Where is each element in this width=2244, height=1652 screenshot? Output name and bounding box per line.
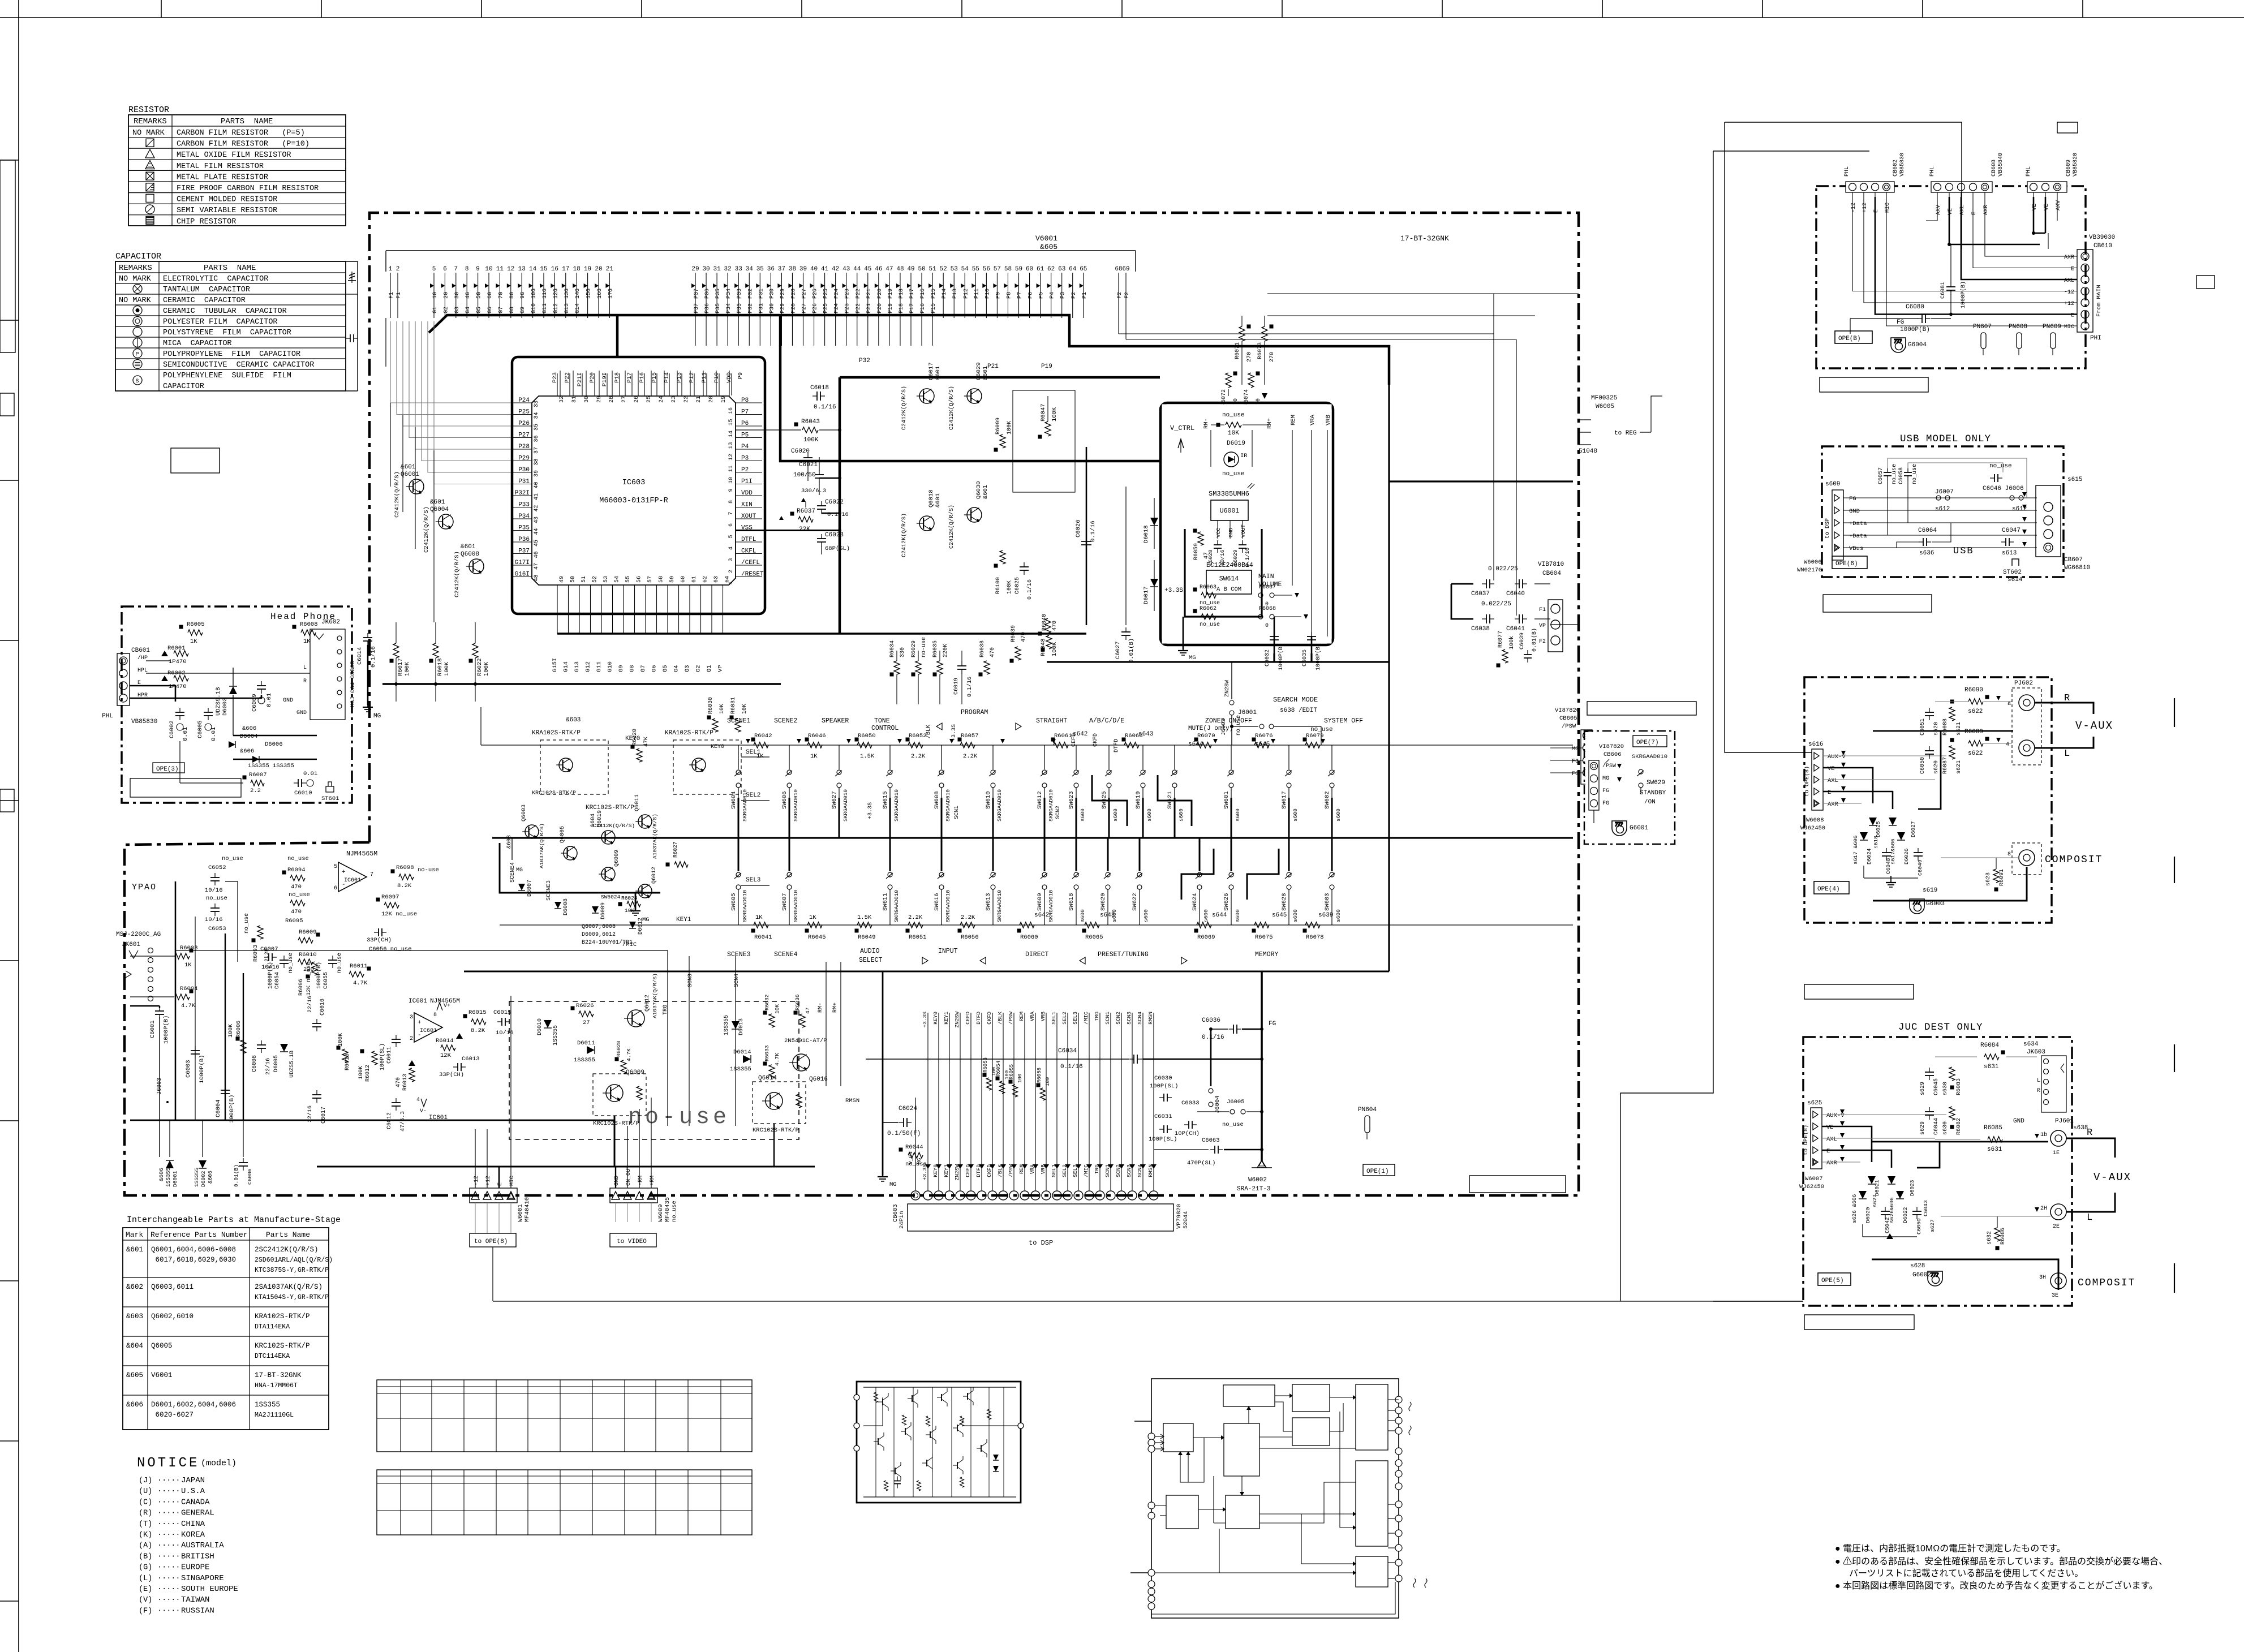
R6006 100K [236, 1037, 240, 1041]
terminal ST601 [326, 782, 334, 792]
JUC RCA jack R [2050, 1130, 2066, 1146]
svg-text:16G: 16G [597, 289, 603, 299]
svg-text:2.2K: 2.2K [911, 753, 926, 760]
svg-text:SCENE4: SCENE4 [510, 862, 516, 883]
transistor Q6004 2SC2412K [439, 514, 453, 529]
svg-text:32: 32 [559, 396, 565, 403]
svg-text:3G: 3G [454, 292, 461, 299]
svg-text:REMARKS: REMARKS [134, 117, 167, 126]
svg-text:XIN: XIN [741, 502, 753, 509]
svg-text:s600: s600 [1335, 909, 1342, 922]
svg-text:/PSW: /PSW [1008, 1012, 1014, 1025]
legend CAPACITOR electrolytic symbol right [351, 272, 352, 283]
svg-text:AUSTRALIA: AUSTRALIA [181, 1541, 224, 1550]
svg-text:F2: F2 [1539, 639, 1546, 645]
svg-text:G6: G6 [487, 307, 493, 313]
svg-text:P10: P10 [713, 372, 720, 383]
svg-text:44: 44 [853, 266, 861, 273]
svg-text:TANTALUM CAPACITOR: TANTALUM CAPACITOR [163, 286, 250, 294]
svg-text:no_use: no_use [206, 895, 227, 902]
diode D6012 [629, 922, 636, 928]
block diagram box I right tall2 [1356, 1461, 1388, 1546]
svg-text:&602: &602 [126, 1283, 143, 1291]
svg-text:6: 6 [728, 523, 734, 527]
svg-text:Q6030: Q6030 [975, 481, 982, 499]
USB input connector W6006 [1832, 490, 1843, 560]
J6004 jumper riser [1210, 1029, 1212, 1086]
svg-text:1K: 1K [303, 638, 311, 645]
svg-text:AXR: AXR [1828, 801, 1839, 808]
svg-text:OPE(3): OPE(3) [156, 766, 179, 773]
svg-text:no_use: no_use [1222, 471, 1245, 477]
transistor Q6018 &601 [919, 516, 934, 531]
svg-text:1000P(B): 1000P(B) [1960, 281, 1967, 308]
svg-text:0.1/16: 0.1/16 [1060, 1064, 1083, 1070]
svg-text:10/16: 10/16 [261, 964, 280, 971]
svg-text:s631: s631 [1984, 1064, 1999, 1070]
thick horizontal upper bus [1389, 480, 1573, 482]
svg-text:G6003: G6003 [1926, 901, 1945, 907]
svg-text:s619: s619 [1923, 887, 1937, 894]
thick VE bus OPE(B) [1949, 244, 2040, 246]
legend RESISTOR symbol cement molded [146, 194, 154, 202]
resistor R6043 100K [794, 423, 798, 427]
svg-text:62: 62 [1047, 266, 1055, 273]
svg-text:0.1/16: 0.1/16 [966, 677, 973, 697]
svg-text:P31: P31 [758, 289, 764, 299]
svg-text:G16I: G16I [515, 571, 530, 578]
OPE(3) label box [153, 763, 184, 773]
svg-text:MF00325: MF00325 [1591, 395, 1617, 402]
svg-text:CEFD: CEFD [965, 1012, 971, 1025]
svg-text:s639: s639 [1318, 912, 1333, 919]
switch SW613 [992, 838, 994, 871]
resistor R6071 270 [1247, 325, 1251, 329]
svg-text:A1037AK(Q/R/S): A1037AK(Q/R/S) [652, 814, 658, 859]
svg-text:100K: 100K [1007, 421, 1013, 434]
svg-text:VB39030: VB39030 [2089, 234, 2115, 241]
left edge narrow box [0, 160, 15, 352]
svg-text:24: 24 [659, 396, 665, 403]
svg-text:Q6004: Q6004 [430, 506, 449, 513]
svg-text:CERAMIC TUBULAR CAPACITOR: CERAMIC TUBULAR CAPACITOR [163, 307, 287, 316]
svg-text:36: 36 [767, 266, 775, 273]
svg-text:Q6001,6004,6006-6008: Q6001,6004,6006-6008 [151, 1246, 236, 1254]
svg-text:R6022: R6022 [476, 658, 483, 676]
svg-text:5: 5 [334, 864, 337, 870]
svg-text:C6050: C6050 [1920, 757, 1926, 774]
svg-text:3: 3 [410, 1014, 413, 1021]
svg-text:OPE(B): OPE(B) [1838, 335, 1861, 342]
svg-text:1SS355: 1SS355 [194, 1167, 200, 1187]
svg-text:17-BT-32GNK: 17-BT-32GNK [1400, 234, 1449, 243]
svg-text:43: 43 [842, 266, 850, 273]
svg-text:C6064: C6064 [1918, 527, 1937, 534]
svg-text:1000P(B): 1000P(B) [1315, 643, 1322, 670]
svg-text:R6038: R6038 [979, 640, 986, 657]
svg-text:SCENE3: SCENE3 [727, 951, 751, 958]
svg-text:C2412K(Q/R/S): C2412K(Q/R/S) [901, 386, 908, 430]
legend CAPACITOR film symbol right [346, 338, 350, 339]
svg-text:SCN4: SCN4 [734, 974, 740, 987]
svg-text:P23: P23 [552, 372, 558, 383]
svg-text:s617&606: s617&606 [1890, 838, 1896, 864]
svg-text:CEMENT MOLDED RESISTOR: CEMENT MOLDED RESISTOR [177, 196, 277, 204]
svg-text:G10: G10 [531, 303, 538, 313]
svg-text:R6094: R6094 [287, 867, 306, 874]
IC603 right pins [736, 402, 762, 403]
svg-text:D6002: D6002 [200, 1171, 207, 1187]
svg-text:VRA: VRA [1029, 1012, 1035, 1021]
resistor R6076 [1252, 738, 1256, 742]
svg-text:/MIC: /MIC [1083, 1012, 1089, 1025]
svg-text:PJ602: PJ602 [2014, 680, 2033, 687]
svg-text:+3.3S: +3.3S [1164, 587, 1183, 594]
svg-text:8: 8 [728, 500, 734, 504]
svg-text:69: 69 [1122, 266, 1129, 273]
svg-text:46: 46 [534, 551, 540, 558]
svg-text:UDZS5.1B: UDZS5.1B [289, 1051, 295, 1078]
thick audio path wires YPAO [175, 881, 177, 1120]
svg-text:DTFL: DTFL [741, 536, 756, 543]
svg-text:C6001: C6001 [149, 1020, 156, 1038]
svg-text:D6012: D6012 [638, 918, 644, 935]
svg-text:.....: ..... [157, 1573, 180, 1581]
empty annotation rect below USB [1823, 595, 1932, 612]
OPE(7) label box [1633, 735, 1667, 747]
svg-text:100K: 100K [228, 1024, 234, 1038]
C6004 1000P(B) [225, 1086, 226, 1090]
svg-text:+: + [342, 869, 346, 876]
svg-text:1G: 1G [432, 292, 439, 299]
C6028 10/16 [1217, 540, 1218, 545]
svg-text:2SC2412K(Q/R/S): 2SC2412K(Q/R/S) [255, 1246, 319, 1254]
block diagram box B [1292, 1384, 1330, 1412]
svg-text:KTC3875S-Y,GR-RTK/P: KTC3875S-Y,GR-RTK/P [255, 1267, 329, 1274]
svg-text:ST602: ST602 [2003, 569, 2022, 576]
svg-text:CERAMIC CAPACITOR: CERAMIC CAPACITOR [163, 296, 246, 305]
OPE(7) dash-dot sub box [1584, 731, 1675, 844]
ST602 s614 [2012, 559, 2019, 566]
svg-text:G6001: G6001 [1630, 825, 1648, 832]
svg-text:to OPE(8): to OPE(8) [1803, 1125, 1809, 1155]
R6009 resistor [316, 933, 320, 937]
svg-text:C6055: C6055 [323, 972, 329, 989]
svg-text:s600: s600 [1203, 909, 1209, 922]
svg-text:R6037: R6037 [797, 508, 815, 515]
svg-text:4: 4 [416, 1097, 420, 1103]
svg-text:P15: P15 [651, 372, 658, 383]
svg-text:0.022/25: 0.022/25 [1481, 601, 1511, 608]
svg-text:68: 68 [1115, 266, 1122, 273]
svg-text:GND: GND [614, 1176, 620, 1186]
thick FG vertical [1261, 971, 1263, 1161]
svg-text:D6022: D6022 [1902, 1207, 1908, 1223]
svg-text:R6088: R6088 [1942, 719, 1949, 735]
s616 signal wires [1823, 755, 1946, 756]
svg-text:&606: &606 [242, 725, 256, 732]
svg-text:FG: FG [1572, 759, 1579, 765]
svg-text:Q6009: Q6009 [626, 1069, 644, 1076]
svg-text:C6040: C6040 [1506, 591, 1525, 597]
svg-text:no_use: no_use [244, 913, 250, 933]
svg-text:.....: ..... [157, 1475, 180, 1483]
svg-text:P29: P29 [780, 303, 786, 313]
svg-text:TRG: TRG [1094, 1012, 1100, 1021]
svg-text:Q6012: Q6012 [644, 995, 651, 1012]
svg-text:s600: s600 [1292, 808, 1299, 821]
svg-text:&606: &606 [126, 1401, 143, 1409]
svg-text:0.022/25: 0.022/25 [1488, 566, 1518, 573]
svg-text:50: 50 [570, 576, 577, 583]
svg-text:C6049: C6049 [1917, 859, 1923, 876]
svg-text:D6027: D6027 [1910, 821, 1916, 837]
svg-text:+3.3S: +3.3S [922, 1012, 928, 1028]
svg-text:&601: &601 [430, 499, 445, 506]
svg-text:13G: 13G [564, 289, 570, 299]
svg-text:CB610: CB610 [2093, 243, 2112, 249]
remote sensor block thick frame [1160, 403, 1333, 645]
svg-text:1SS355: 1SS355 [574, 1057, 595, 1064]
svg-text:C6033: C6033 [1181, 1100, 1200, 1107]
svg-text:P13: P13 [676, 372, 683, 383]
svg-text:CAPACITOR: CAPACITOR [163, 382, 204, 391]
jumper R6068 0 [1258, 614, 1263, 619]
svg-text:G8: G8 [509, 307, 515, 313]
long wire OPE8 top route A [1725, 122, 1962, 249]
R6013 470 [409, 1060, 415, 1066]
svg-text:MIC: MIC [509, 1176, 515, 1186]
upper no_use loop wires [1888, 458, 2027, 498]
R6053 R6054 R6055 R6058 100 resistors [983, 1073, 987, 1077]
svg-text:11: 11 [496, 266, 504, 273]
svg-text:R6012: R6012 [365, 1065, 371, 1082]
legend CAPACITOR symbol sulfide [133, 376, 142, 385]
left edge small mark 1 [0, 393, 14, 416]
rail dots [394, 682, 398, 686]
svg-text:P26: P26 [518, 420, 530, 427]
svg-text:VCC: VCC [1215, 528, 1222, 537]
svg-text:4.7K: 4.7K [181, 1003, 196, 1009]
legend table RESISTOR frame [128, 115, 346, 226]
svg-text:V6001: V6001 [151, 1371, 173, 1379]
svg-text:SEARCH MODE: SEARCH MODE [1273, 696, 1318, 704]
page mark rect top right [2057, 122, 2078, 133]
svg-text:C2412K(Q/R/S): C2412K(Q/R/S) [948, 386, 955, 430]
svg-text:C6018: C6018 [810, 385, 829, 392]
svg-text:19: 19 [584, 266, 591, 273]
svg-text:R6006: R6006 [236, 1021, 242, 1038]
svg-text:R6042: R6042 [754, 733, 772, 739]
svg-text:330: 330 [900, 647, 906, 657]
svg-text:PHL: PHL [2026, 166, 2032, 177]
svg-text:FG: FG [1572, 771, 1579, 777]
C6017 22/16 [316, 1090, 317, 1095]
no-use dashed box [509, 1001, 799, 1139]
svg-text:26: 26 [634, 396, 640, 403]
svg-text:Q6003,6011: Q6003,6011 [151, 1283, 194, 1291]
small annotation rect below capacitor legend [171, 448, 220, 473]
svg-text:C2412K(Q/R/S): C2412K(Q/R/S) [948, 505, 955, 549]
svg-text:VDD: VDD [726, 372, 733, 383]
JUC dash-dot box [1803, 1037, 2072, 1306]
svg-text:22: 22 [683, 396, 690, 403]
svg-text:JK601: JK601 [122, 941, 140, 948]
svg-text:F1: F1 [389, 292, 395, 299]
svg-text:30: 30 [702, 266, 710, 273]
legend CAPACITOR symbol polyester [133, 317, 142, 326]
svg-text:L: L [2064, 748, 2070, 759]
svg-text:P15: P15 [931, 303, 937, 313]
svg-text:V6001: V6001 [1035, 234, 1057, 243]
svg-text:P14: P14 [664, 372, 670, 383]
svg-text:R6084: R6084 [1980, 1042, 1999, 1049]
resistor R6037 22K with XOUT [790, 512, 794, 516]
svg-text:53: 53 [951, 266, 958, 273]
resistor R6020 47K [631, 745, 635, 749]
thick P1I riser [780, 315, 1160, 461]
connector CB603 24pin wires [927, 1013, 928, 1190]
resistor R6060 [1017, 929, 1021, 933]
svg-text:G6004: G6004 [1908, 342, 1927, 349]
svg-text:PROGRAM: PROGRAM [961, 709, 988, 716]
svg-text:1E: 1E [2053, 1150, 2060, 1156]
ZN2SW J6002 riser [1231, 662, 1232, 699]
svg-text:SW622: SW622 [1132, 893, 1138, 911]
block diagram input circles [1148, 1433, 1155, 1440]
svg-text:P19I: P19I [601, 372, 608, 386]
svg-text:P17: P17 [909, 289, 915, 299]
R6026 27 [571, 1006, 575, 1010]
capacitor C6021 330/6.3 [819, 470, 820, 475]
resistor R6070 [1194, 738, 1198, 742]
empty annotation rect below V-AUX [1804, 984, 1914, 999]
diodes D6018 D6017 UDZS3.6B [1150, 518, 1158, 526]
svg-text:VRA: VRA [1309, 414, 1316, 425]
empty annotation rect bottom right of main box [1469, 1176, 1566, 1193]
svg-text:AXL: AXL [1826, 1136, 1837, 1143]
svg-text:15: 15 [540, 266, 547, 273]
svg-text:Reference Parts Number: Reference Parts Number [151, 1231, 248, 1239]
svg-text:P36: P36 [704, 289, 711, 299]
svg-text:P29: P29 [780, 289, 786, 299]
svg-text:s615: s615 [2067, 476, 2082, 483]
transistor Q6030 &601 [967, 507, 982, 522]
R6028 4.7K [615, 1057, 619, 1061]
R6094 470 no_use [282, 871, 286, 875]
svg-text:SCN3: SCN3 [687, 974, 694, 987]
svg-text:64: 64 [1069, 266, 1077, 273]
svg-text:0.01(B): 0.01(B) [233, 1164, 239, 1187]
svg-text:1000P(B): 1000P(B) [229, 1095, 235, 1123]
svg-text:C2412K(Q/R/S): C2412K(Q/R/S) [901, 513, 908, 557]
OPE(B) label box [1835, 331, 1872, 343]
svg-text:C6020: C6020 [791, 448, 810, 455]
USB dash-dot box [1822, 446, 2064, 577]
svg-text:IC601: IC601 [420, 1028, 437, 1034]
svg-text:.....: ..... [157, 1551, 180, 1559]
svg-text:R6071: R6071 [1235, 342, 1241, 359]
svg-text:P28: P28 [518, 444, 530, 450]
svg-text:SW627: SW627 [831, 791, 838, 809]
svg-text:/RESET: /RESET [741, 571, 764, 578]
svg-text:CB602: CB602 [1893, 160, 1899, 177]
svg-text:4.7K: 4.7K [626, 1048, 632, 1061]
switch SW615 [889, 745, 891, 769]
svg-text:COMPOSIT: COMPOSIT [2078, 1277, 2135, 1289]
svg-text:R6050: R6050 [858, 733, 876, 739]
svg-text:2E: 2E [2053, 1224, 2060, 1230]
svg-text:3H: 3H [2039, 1275, 2046, 1281]
svg-text:s642: s642 [1073, 731, 1087, 738]
svg-text:MG: MG [889, 1181, 897, 1188]
svg-text:8.2K: 8.2K [471, 1027, 485, 1034]
svg-text:100K: 100K [803, 437, 819, 444]
connector V6001 17-BT-32GNK strip [386, 250, 1136, 251]
svg-text:C6063: C6063 [1202, 1137, 1220, 1144]
svg-text:P28: P28 [790, 289, 797, 299]
svg-text:s621: s621 [1956, 722, 1962, 735]
svg-text:34: 34 [534, 412, 540, 419]
svg-text:P32: P32 [747, 289, 754, 299]
svg-text:JAPAN: JAPAN [181, 1476, 205, 1485]
svg-text:(R): (R) [139, 1509, 152, 1518]
W6002 SRA-21T-3 ground [1257, 1160, 1266, 1168]
block diagram left stub [1134, 1421, 1151, 1422]
transistor Q6008 2SC2412K [469, 559, 484, 574]
mid thick bus line [492, 837, 1573, 838]
svg-text:D6024: D6024 [1866, 848, 1872, 864]
svg-text:AUX-V: AUX-V [1828, 754, 1846, 760]
svg-text:F1: F1 [396, 292, 402, 299]
svg-text:12: 12 [507, 266, 514, 273]
svg-text:s631: s631 [1987, 1146, 2002, 1153]
svg-text:s638 /EDIT: s638 /EDIT [1280, 707, 1317, 714]
svg-text:48: 48 [534, 574, 540, 581]
resistor R6005 1K [179, 625, 183, 629]
svg-text:C6003: C6003 [185, 1060, 192, 1078]
svg-text:100P(SL): 100P(SL) [1149, 1136, 1177, 1143]
svg-text:V-: V- [420, 1108, 427, 1115]
svg-text:PHL: PHL [102, 713, 113, 720]
svg-text:62: 62 [703, 576, 709, 583]
svg-text:C6024: C6024 [899, 1105, 917, 1112]
svg-text:CKFD: CKFD [1093, 733, 1099, 747]
svg-text:P3: P3 [741, 455, 749, 462]
interchangeable parts table frame [123, 1228, 329, 1430]
svg-text:1000P(B): 1000P(B) [1900, 326, 1930, 333]
svg-text:C6016: C6016 [320, 999, 326, 1016]
svg-text:1SS355: 1SS355 [553, 1025, 559, 1046]
svg-text:KRC102S-RTK/P: KRC102S-RTK/P [586, 805, 634, 811]
svg-text:29: 29 [691, 266, 699, 273]
svg-text:R6020: R6020 [632, 729, 638, 746]
svg-text:P11: P11 [974, 289, 980, 299]
svg-text:s638: s638 [2073, 1125, 2088, 1132]
W6001 riser wires [475, 1129, 476, 1188]
svg-text:23: 23 [671, 396, 677, 403]
svg-text:CB606: CB606 [1604, 751, 1622, 758]
svg-text:(model): (model) [201, 1459, 237, 1468]
svg-text:220K: 220K [943, 644, 949, 657]
wires to PJ602 [1935, 701, 1968, 702]
svg-text:R6096: R6096 [298, 979, 304, 996]
svg-text:21: 21 [606, 266, 614, 273]
transistor Q6003 &602 [525, 825, 539, 838]
thick wires head phone [130, 686, 175, 702]
svg-text:35: 35 [534, 424, 540, 431]
svg-text:PHL: PHL [1929, 166, 1936, 177]
